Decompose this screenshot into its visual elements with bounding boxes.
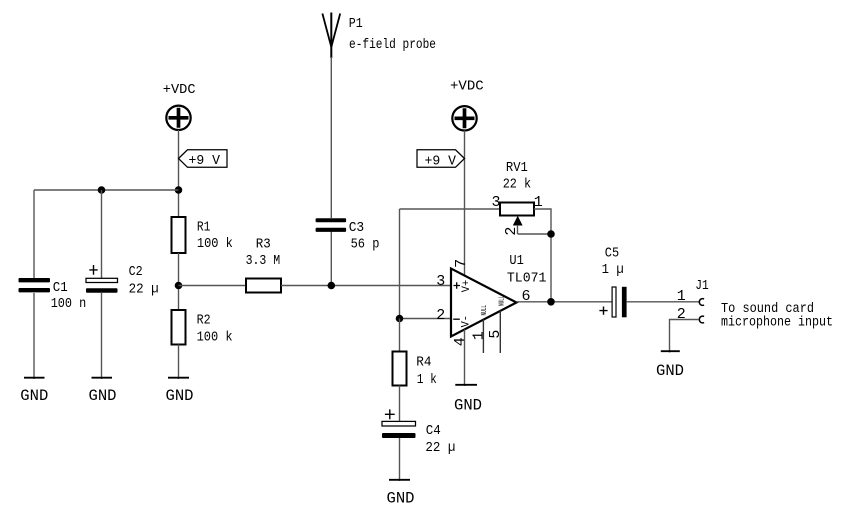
svg-text:R2: R2 [197, 313, 211, 329]
wire +VDC left down to R1 [178, 130, 180, 217]
power +VDC right [450, 78, 484, 130]
power +VDC left [163, 82, 196, 130]
svg-text:R4: R4 [416, 355, 431, 371]
capacitor C3 [316, 218, 380, 252]
plus mark [599, 307, 607, 315]
svg-text:C1: C1 [53, 280, 68, 296]
svg-text:3.3 M: 3.3 M [246, 253, 281, 269]
net flag +9 V right [417, 150, 465, 170]
svg-text:22 k: 22 k [503, 177, 531, 193]
resistor R4 [393, 352, 437, 389]
wire op-amp output [517, 301, 612, 303]
wire feedback vertical [399, 209, 401, 319]
svg-text:2: 2 [436, 307, 445, 324]
svg-text:7: 7 [453, 259, 470, 268]
svg-text:3: 3 [492, 194, 501, 211]
svg-text:2: 2 [677, 306, 686, 323]
wire +VDC right to op-amp pin 7 [464, 131, 466, 276]
resistor R2 [172, 310, 233, 345]
capacitor C2 polarized [86, 264, 159, 297]
wire RV1 wiper to pin1 net [518, 233, 552, 235]
ground below op-amp [454, 385, 482, 415]
svg-text:1 k: 1 k [417, 372, 437, 388]
svg-text:GND: GND [20, 387, 48, 405]
plus mark [89, 265, 97, 275]
node R1 R2 R3 [175, 282, 183, 290]
svg-text:6: 6 [522, 288, 531, 305]
svg-text:GND: GND [89, 387, 117, 405]
pin1 stub [482, 320, 484, 354]
svg-text:e-field probe: e-field probe [349, 37, 436, 53]
wire antenna to C3 [330, 57, 332, 218]
pin 1 contact [699, 299, 704, 306]
capacitor C4 polarized [382, 409, 455, 456]
net flag +9 V left [179, 150, 228, 169]
wire C5 to J1 pin1 [627, 301, 699, 303]
potentiometer RV1 [492, 160, 543, 236]
svg-text:C5: C5 [605, 245, 619, 261]
svg-text:NULL: NULL [481, 305, 489, 316]
svg-text:RV1: RV1 [506, 160, 528, 176]
node RV1 pin1 pin2 [547, 230, 555, 238]
svg-text:U1: U1 [509, 253, 523, 269]
ground below C4 [387, 480, 415, 508]
ground below C1 [20, 378, 48, 405]
wire C1 stem upper [33, 190, 35, 279]
svg-text:1: 1 [677, 288, 686, 305]
node output junction [547, 298, 555, 306]
wire J1 pin2 to ground [670, 320, 700, 353]
wire op-amp pin4 to ground [464, 329, 466, 386]
node feedback R4 pin2 [396, 315, 404, 323]
svg-text:TL071: TL071 [507, 270, 547, 286]
svg-text:C3: C3 [349, 220, 365, 236]
ground below C2 [89, 378, 117, 405]
pin 2 contact [699, 316, 704, 323]
wire op-amp pin2 lead [400, 318, 452, 320]
pin5 stub [499, 311, 501, 353]
wire C1 stem lower [33, 293, 35, 379]
svg-text:C4: C4 [426, 423, 441, 439]
svg-text:P1: P1 [349, 16, 363, 32]
svg-text:+VDC: +VDC [450, 78, 484, 94]
wire R2 to ground [178, 345, 180, 380]
node C3 main wire [328, 282, 336, 290]
svg-text:1 µ: 1 µ [602, 262, 624, 278]
node top rail junction at VDD column [175, 186, 183, 194]
svg-text:22 µ: 22 µ [425, 440, 455, 456]
wiper arrow [513, 216, 523, 226]
wire R4 to C4 [399, 386, 401, 422]
wire RV1 pin3 lead [400, 208, 501, 210]
svg-text:C2: C2 [129, 264, 143, 280]
wire C3 to main node [330, 231, 332, 286]
svg-text:V+: V+ [461, 280, 473, 292]
op-amp U1 [436, 253, 546, 353]
wire C2 stem upper [101, 190, 103, 279]
svg-text:GND: GND [656, 362, 684, 380]
capacitor C5 polarized [599, 245, 626, 317]
svg-text:4: 4 [452, 337, 469, 346]
svg-text:V-: V- [460, 315, 472, 327]
svg-text:100 n: 100 n [51, 296, 86, 312]
ground below R2 [166, 378, 194, 405]
plus input mark [454, 282, 461, 289]
svg-text:3: 3 [436, 273, 445, 290]
svg-text:+9 V: +9 V [425, 154, 457, 170]
svg-text:J1: J1 [695, 278, 709, 294]
svg-text:1: 1 [471, 331, 488, 340]
antenna P1 [322, 13, 340, 59]
svg-text:R3: R3 [256, 236, 271, 252]
svg-text:5: 5 [487, 330, 504, 339]
svg-text:100 k: 100 k [197, 236, 233, 252]
capacitor C1 [19, 278, 87, 312]
connector J1 [677, 278, 709, 323]
svg-text:GND: GND [454, 397, 482, 415]
wire R4 top lead [399, 319, 401, 352]
minus input mark [453, 318, 460, 320]
svg-text:GND: GND [387, 490, 415, 508]
svg-text:1: 1 [534, 194, 543, 211]
wire R3 to op-amp input [281, 285, 451, 287]
svg-text:+VDC: +VDC [163, 82, 196, 98]
svg-text:microphone input: microphone input [721, 315, 833, 331]
resistor R1 [172, 217, 233, 253]
svg-text:100 k: 100 k [197, 329, 233, 345]
ground below J1 [656, 351, 684, 380]
resistor R3 [246, 236, 281, 292]
wire top rail [34, 189, 179, 191]
svg-text:NULL: NULL [498, 296, 506, 307]
svg-text:GND: GND [166, 387, 194, 405]
wire RV1 pin1 lead [534, 209, 551, 302]
svg-text:56 p: 56 p [351, 236, 380, 252]
wire main node to R3 [179, 285, 247, 287]
svg-text:22 µ: 22 µ [129, 281, 159, 297]
wire C2 stem lower [101, 293, 103, 379]
svg-text:+9 V: +9 V [189, 153, 221, 169]
node C2 tap [98, 186, 106, 194]
wire R1 to node to R2 [178, 253, 180, 310]
svg-text:R1: R1 [197, 219, 211, 235]
plus mark [385, 409, 395, 419]
wire C4 to ground [399, 438, 401, 481]
